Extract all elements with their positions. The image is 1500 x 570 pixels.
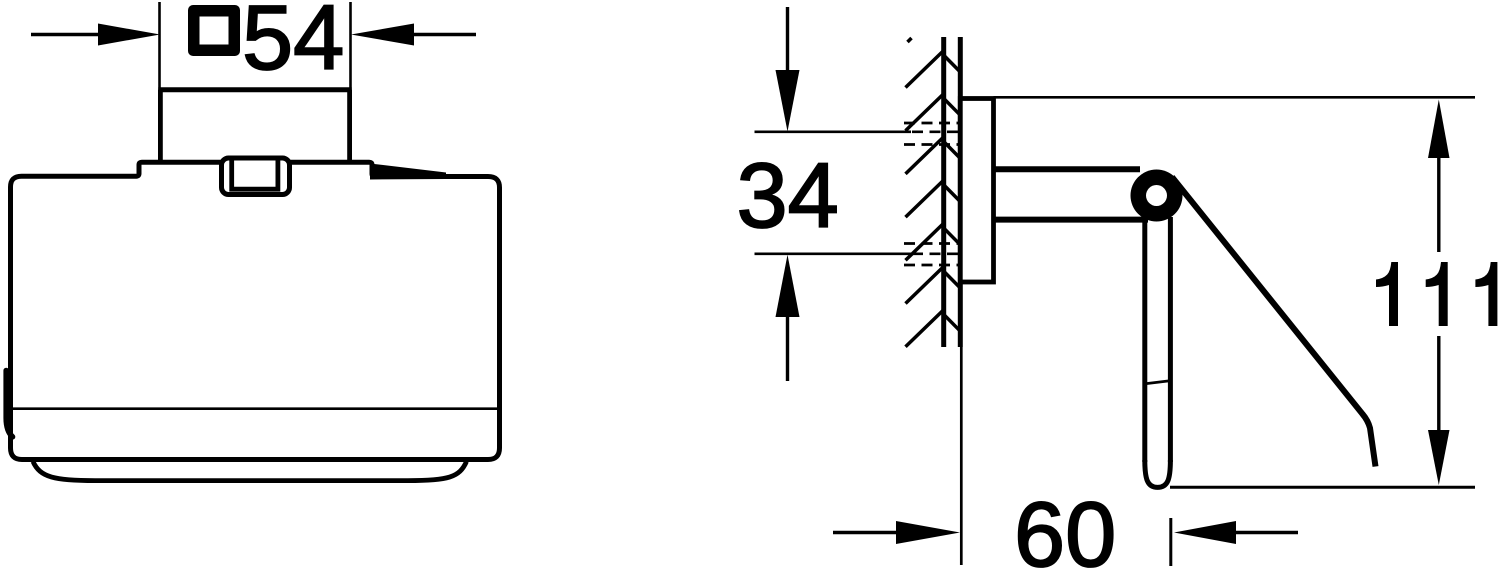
dim 111 line lower segment + arrow: [1428, 336, 1450, 485]
svg-text:60: 60: [1014, 484, 1116, 570]
wall face line: [958, 37, 963, 347]
dim 111 line upper segment + arrow: [1428, 100, 1450, 253]
dim 34 bottom reference line: [755, 252, 912, 255]
roll post left edge: [1142, 214, 1147, 462]
dim 60 right extension line: [1169, 518, 1172, 566]
arm top edge: [993, 166, 1140, 172]
screw hole hidden lines top: [904, 123, 959, 145]
dim 111 bottom reference line: [1170, 486, 1475, 489]
wall back line: [941, 37, 946, 347]
roll post joint tick: [1143, 381, 1172, 385]
svg-text:34: 34: [737, 145, 839, 247]
spindle end protrusion left: [6, 371, 12, 437]
mount plate side view: [960, 99, 993, 283]
extension line right of dim 54: [349, 2, 352, 90]
pivot hinge ring: [1131, 170, 1183, 222]
dim 54 left arrow: [31, 24, 160, 46]
screw hole hidden lines bottom: [904, 244, 959, 266]
mount plate front view right edge: [347, 90, 352, 161]
wall face extension down: [960, 347, 963, 565]
dim label 111: [1376, 262, 1497, 326]
clip tab outer: [222, 158, 290, 195]
clip tab inner: [232, 159, 278, 189]
roll post right edge: [1168, 217, 1173, 462]
holder body front view outline: [11, 162, 500, 459]
dim 34 lower arrow (up): [776, 255, 800, 381]
square symbol of dim 54: [188, 5, 240, 56]
dim 34 top reference line: [755, 130, 912, 133]
cover flap: [1172, 177, 1376, 467]
dim 54 right arrow: [351, 24, 476, 46]
svg-text:54: 54: [242, 0, 344, 89]
wall hatching: [906, 38, 961, 347]
mount plate front view left edge: [158, 90, 163, 161]
arm bottom edge: [993, 217, 1148, 223]
body horizontal seam line: [13, 407, 498, 410]
paper roll bottom arc: [33, 462, 467, 481]
dim 60 right arrow: [1174, 521, 1298, 544]
thick chamfer band right of step: [370, 164, 446, 180]
extension line left of dim 54: [158, 2, 161, 90]
dim 111 top reference line: [994, 96, 1476, 99]
mount plate front view top edge: [158, 87, 351, 92]
dim 34 upper arrow (down): [776, 7, 800, 132]
dim 60 left arrow: [833, 521, 960, 544]
roll post bottom cap: [1145, 460, 1171, 487]
